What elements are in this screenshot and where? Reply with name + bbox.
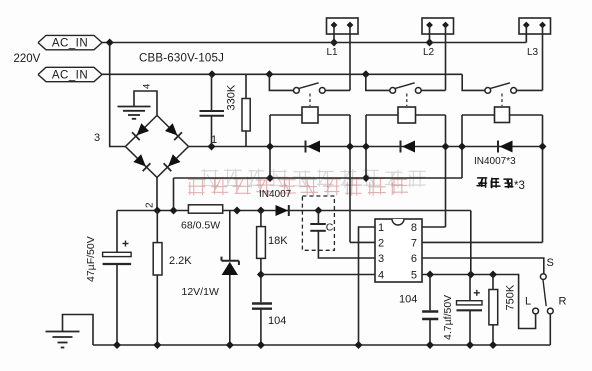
svg-text:18K: 18K — [268, 235, 288, 247]
svg-text:8: 8 — [411, 222, 417, 234]
svg-text:4.7µf/50V: 4.7µf/50V — [442, 295, 454, 340]
svg-text:2: 2 — [378, 237, 384, 249]
svg-text:3: 3 — [94, 132, 100, 144]
svg-text:R: R — [559, 296, 567, 308]
svg-text:IN4007*3: IN4007*3 — [474, 156, 516, 167]
svg-text:2: 2 — [145, 202, 156, 208]
svg-text:7: 7 — [411, 237, 417, 249]
svg-text:220V: 220V — [14, 53, 41, 65]
svg-text:1: 1 — [378, 222, 384, 234]
svg-text:2.2K: 2.2K — [169, 255, 192, 267]
svg-text:104: 104 — [268, 315, 286, 327]
svg-text:AC_IN: AC_IN — [52, 70, 88, 82]
svg-text:6: 6 — [411, 253, 417, 265]
svg-text:750K: 750K — [505, 284, 517, 310]
svg-text:12V/1W: 12V/1W — [182, 286, 219, 298]
svg-text:4: 4 — [378, 270, 384, 282]
svg-text:S: S — [547, 257, 554, 269]
svg-text:47µF/50V: 47µF/50V — [85, 236, 97, 282]
svg-text:5: 5 — [411, 270, 417, 282]
svg-text:CBB-630V-105J: CBB-630V-105J — [139, 53, 224, 65]
svg-text:*3: *3 — [514, 180, 525, 192]
svg-text:L1: L1 — [327, 47, 339, 58]
svg-text:L2: L2 — [423, 47, 435, 58]
svg-text:3: 3 — [378, 253, 384, 265]
svg-text:L: L — [525, 296, 531, 308]
svg-text:330K: 330K — [226, 84, 238, 110]
svg-text:104: 104 — [399, 294, 417, 306]
svg-text:68/0.5W: 68/0.5W — [181, 220, 220, 232]
svg-text:C: C — [326, 222, 334, 234]
svg-text:IN4007: IN4007 — [259, 189, 292, 200]
svg-text:L3: L3 — [527, 47, 539, 58]
svg-text:4: 4 — [142, 84, 153, 89]
svg-text:AC_IN: AC_IN — [52, 38, 88, 50]
